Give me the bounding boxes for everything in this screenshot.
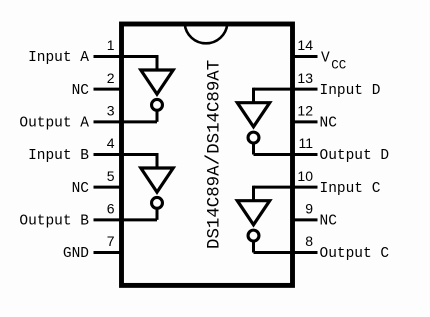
svg-text:NC: NC xyxy=(72,181,90,197)
svg-text:6: 6 xyxy=(107,201,115,217)
svg-text:Input C: Input C xyxy=(320,181,381,197)
svg-text:Output C: Output C xyxy=(320,246,390,262)
svg-text:Output D: Output D xyxy=(320,148,390,164)
svg-text:9: 9 xyxy=(305,201,313,217)
svg-text:1: 1 xyxy=(107,37,115,53)
svg-text:GND: GND xyxy=(63,246,89,262)
svg-text:7: 7 xyxy=(107,233,115,249)
svg-text:11: 11 xyxy=(298,135,313,151)
svg-text:Input A: Input A xyxy=(28,50,89,66)
svg-text:14: 14 xyxy=(297,37,313,53)
svg-text:12: 12 xyxy=(297,103,313,119)
svg-text:Input D: Input D xyxy=(320,83,381,99)
svg-text:NC: NC xyxy=(320,213,338,229)
svg-text:NC: NC xyxy=(72,83,90,99)
svg-text:Output A: Output A xyxy=(19,115,89,131)
svg-text:2: 2 xyxy=(107,70,115,86)
svg-text:Output B: Output B xyxy=(19,213,89,229)
svg-text:DS14C89A/DS14C89AT: DS14C89A/DS14C89AT xyxy=(202,60,224,249)
svg-text:5: 5 xyxy=(107,168,115,184)
svg-text:VCC: VCC xyxy=(321,50,346,72)
svg-text:Input B: Input B xyxy=(28,148,89,164)
svg-text:4: 4 xyxy=(107,135,115,151)
svg-text:10: 10 xyxy=(297,168,313,184)
svg-text:8: 8 xyxy=(305,233,313,249)
svg-text:3: 3 xyxy=(107,103,115,119)
svg-text:NC: NC xyxy=(320,115,338,131)
svg-text:13: 13 xyxy=(297,70,313,86)
